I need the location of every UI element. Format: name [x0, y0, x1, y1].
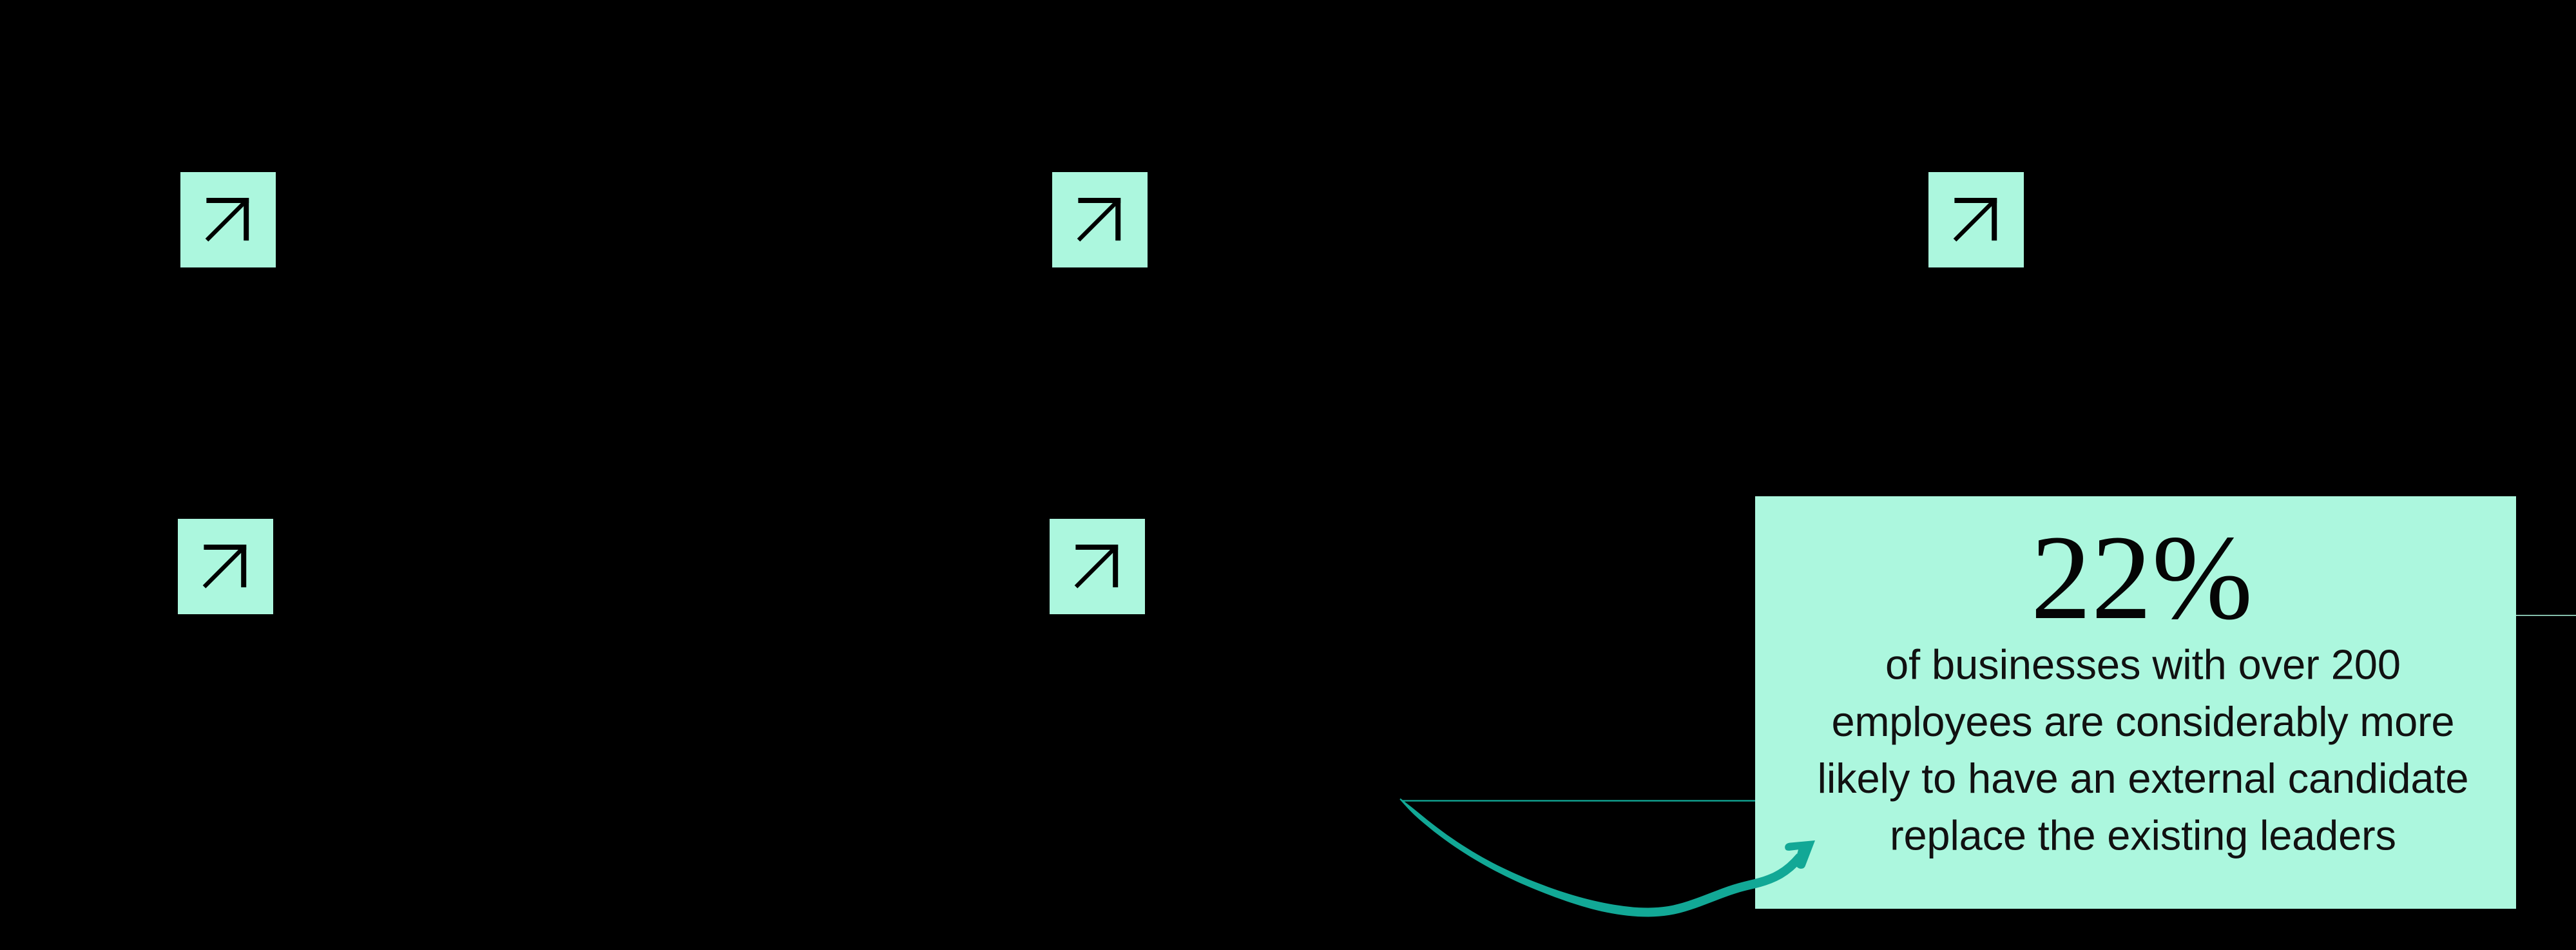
svg-text:likely to have an external can: likely to have an external candidate	[1818, 755, 2469, 802]
svg-text:of businesses with over 200: of businesses with over 200	[1885, 641, 2401, 688]
curved swoosh arrow shaft	[1399, 799, 1803, 917]
swoosh arrowhead	[1785, 840, 1815, 869]
stat icon square 1 (row 1, col 1)	[180, 172, 276, 267]
svg-text:employees are considerably mor: employees are considerably more	[1832, 698, 2455, 745]
stat icon square 4 (row 2, col 1)	[178, 519, 273, 614]
callout box	[1755, 496, 2516, 909]
stat icon square 5 (row 2, col 2)	[1050, 519, 1145, 614]
svg-text:replace the existing leaders: replace the existing leaders	[1890, 812, 2396, 859]
thin mint line right of box	[2516, 615, 2576, 616]
stat icon square 3 (row 1, col 3)	[1928, 172, 2024, 267]
svg-text:22%: 22%	[2031, 510, 2253, 645]
thin teal leader line	[1402, 800, 1755, 801]
stat icon square 2 (row 1, col 2)	[1052, 172, 1148, 267]
